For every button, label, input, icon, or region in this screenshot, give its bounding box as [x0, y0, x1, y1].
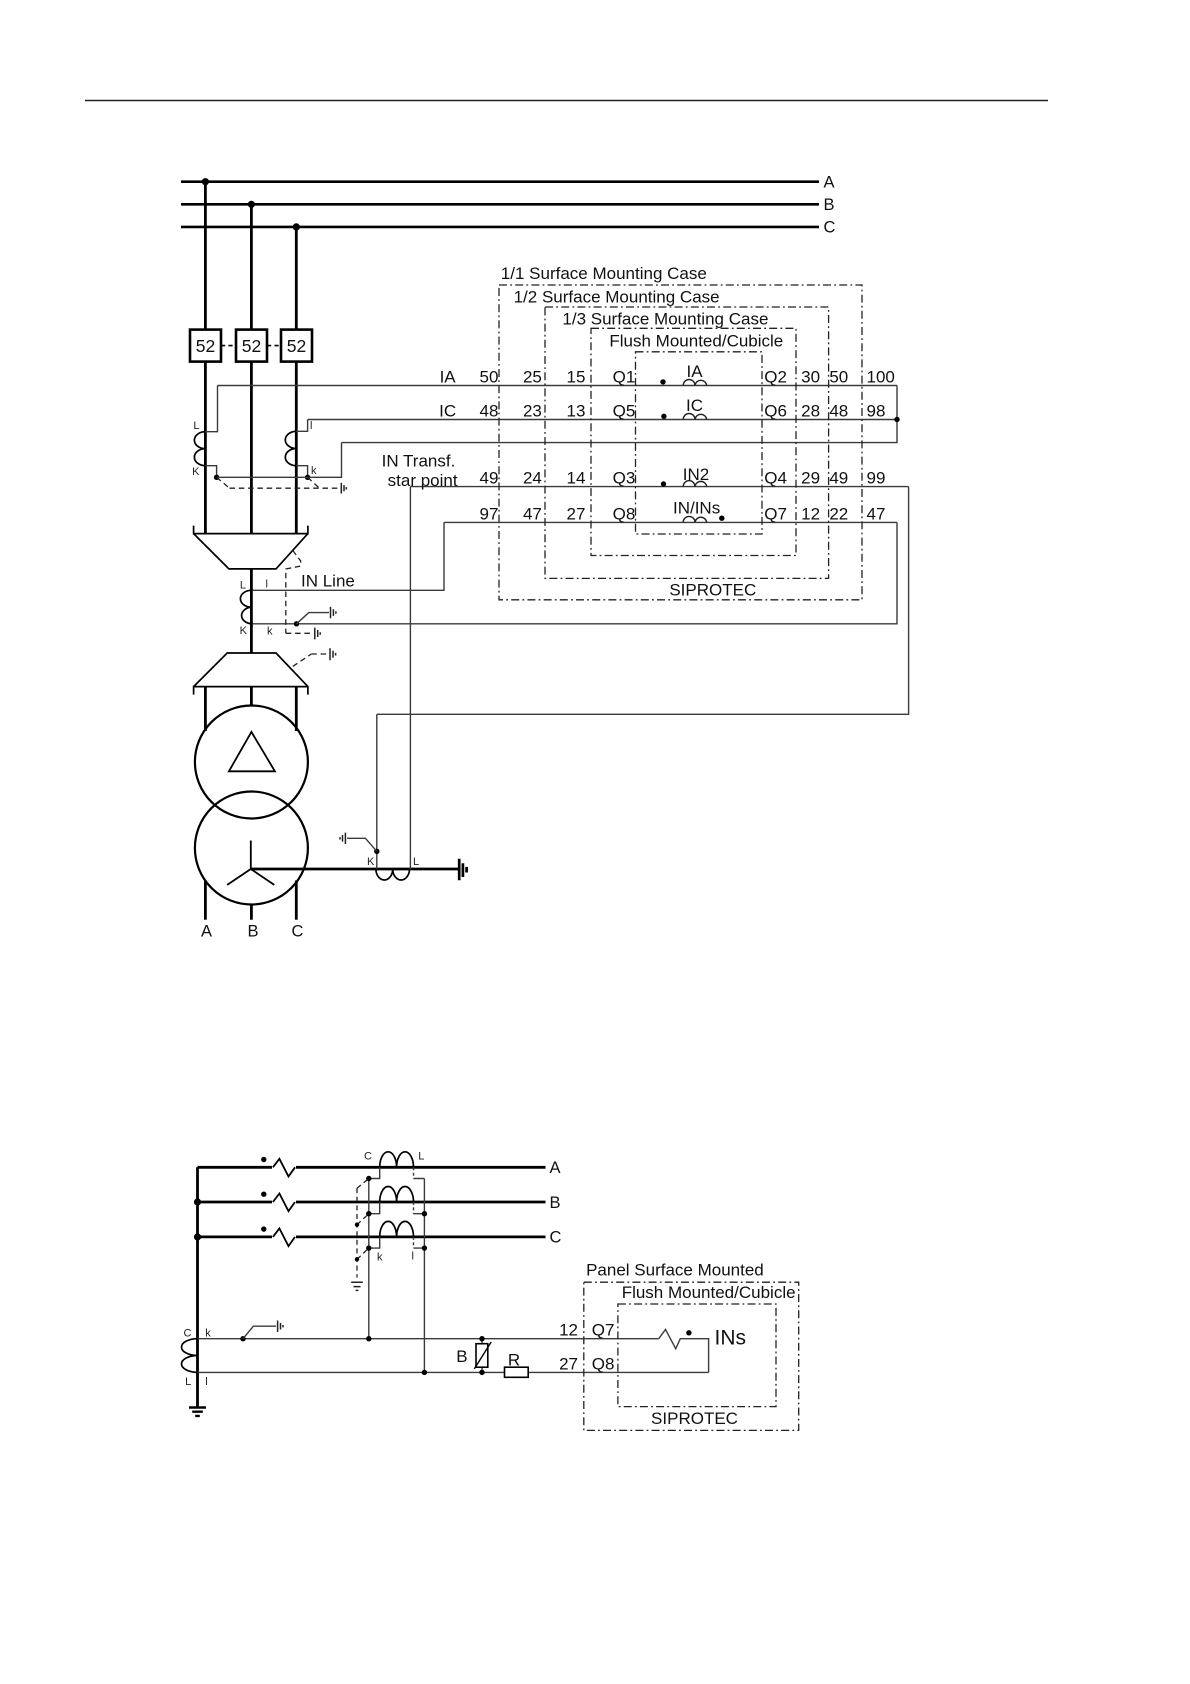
node IC return junction	[894, 417, 899, 422]
svg-text:IC: IC	[686, 396, 703, 415]
wire CT-A K to star point	[205, 466, 216, 478]
svg-text:K: K	[240, 625, 248, 637]
row IC labels	[439, 401, 885, 420]
CT neutral star point (winding)	[376, 869, 410, 880]
ground symbol neutral (earth)	[459, 859, 466, 881]
svg-text:99: 99	[867, 469, 886, 488]
svg-text:Q8: Q8	[592, 1354, 615, 1373]
CT grounding conductor (winding)	[181, 1327, 211, 1388]
svg-text:12: 12	[801, 504, 820, 523]
case 1/1 surface mounting box	[499, 264, 862, 600]
breaker link dashes	[221, 345, 281, 347]
node l lead taps	[422, 1211, 427, 1216]
wire IN/INs return to IN Line k	[251, 522, 897, 623]
feeder phase C	[295, 227, 298, 534]
svg-text:l: l	[205, 1376, 207, 1388]
terminal labels Q7 row	[559, 1321, 614, 1340]
wire CT-C k to star point	[296, 466, 307, 478]
svg-text:47: 47	[523, 504, 542, 523]
svg-text:1/2 Surface Mounting Case: 1/2 Surface Mounting Case	[514, 288, 720, 307]
row IN/INs labels	[480, 504, 886, 523]
svg-text:star point: star point	[388, 471, 458, 490]
stub phase C to transformer	[295, 687, 298, 731]
svg-text:28: 28	[801, 401, 820, 420]
svg-text:L: L	[193, 420, 199, 432]
svg-text:Q4: Q4	[764, 469, 787, 488]
svg-text:k: k	[311, 465, 317, 477]
cable CT phase C (winding)	[369, 1221, 425, 1263]
svg-text:l: l	[310, 420, 312, 432]
delta symbol	[229, 732, 275, 771]
wire CT-A L to IA row	[205, 386, 217, 432]
wire neutral CT K lead	[376, 714, 378, 869]
node neutral CT ground junction	[374, 849, 379, 854]
CT phase C (winding)	[285, 431, 296, 465]
cable CT phase A (winding)	[364, 1151, 424, 1179]
lower diagram phase line A	[198, 1159, 561, 1177]
conductor to IN line CT	[250, 569, 253, 653]
svg-text:C: C	[292, 923, 304, 941]
node k lead to k row	[366, 1336, 371, 1341]
svg-text:l: l	[266, 579, 268, 591]
svg-text:Q7: Q7	[764, 504, 787, 523]
svg-text:25: 25	[523, 367, 542, 386]
svg-text:IA: IA	[686, 362, 703, 381]
transformer lower winding circle	[195, 792, 308, 905]
svg-text:k: k	[377, 1252, 383, 1264]
lower diagram phase line C	[198, 1229, 562, 1247]
wire IC row	[308, 419, 897, 421]
svg-text:23: 23	[523, 401, 542, 420]
breaker 52 phase B	[236, 330, 267, 362]
feeder phase A	[204, 182, 207, 534]
svg-text:14: 14	[567, 469, 586, 488]
page header rule	[85, 100, 1048, 102]
break symbol phase A	[261, 1157, 296, 1178]
wire IN2 return	[377, 487, 909, 715]
varistor B	[456, 1336, 491, 1375]
feeder phase B	[250, 204, 253, 533]
svg-text:IN Line: IN Line	[301, 572, 355, 591]
wire IN/INs row	[444, 521, 897, 523]
IN Transf. star point label	[382, 451, 458, 490]
dashed shield wire lower sealing end	[293, 654, 328, 666]
stub phase B to transformer	[250, 687, 253, 707]
svg-text:R: R	[508, 1350, 520, 1369]
node CT-A K junction	[214, 475, 219, 480]
svg-text:l: l	[412, 1251, 414, 1263]
node bus B tap	[248, 201, 255, 208]
busbar B	[181, 196, 835, 214]
svg-text:24: 24	[523, 469, 542, 488]
svg-text:Q2: Q2	[764, 367, 787, 386]
svg-text:52: 52	[242, 336, 261, 356]
svg-text:27: 27	[559, 1354, 578, 1373]
ground symbol shield upper	[315, 628, 320, 640]
svg-text:B: B	[824, 196, 835, 214]
node shield taps	[355, 1223, 359, 1227]
svg-text:1/1 Surface Mounting Case: 1/1 Surface Mounting Case	[501, 264, 707, 283]
svg-text:27: 27	[567, 504, 586, 523]
wire l row to relay Q8	[198, 1371, 709, 1373]
resistor R	[505, 1350, 529, 1377]
relay winding INs	[659, 1327, 746, 1373]
svg-text:IN/INs: IN/INs	[673, 498, 720, 517]
svg-text:Q5: Q5	[613, 401, 636, 420]
breaker 52 phase C	[281, 330, 312, 362]
phase lead B below transformer	[247, 905, 258, 941]
svg-text:IC: IC	[439, 401, 456, 420]
busbar C	[181, 219, 836, 237]
flush mounted box	[618, 1283, 796, 1407]
svg-text:Q6: Q6	[764, 401, 787, 420]
svg-text:Flush Mounted/Cubicle: Flush Mounted/Cubicle	[609, 331, 783, 350]
svg-text:13: 13	[567, 401, 586, 420]
svg-text:Panel Surface Mounted: Panel Surface Mounted	[586, 1261, 764, 1280]
svg-text:B: B	[247, 923, 258, 941]
break symbol phase C	[261, 1226, 296, 1247]
lower diagram phase line B	[198, 1194, 561, 1212]
svg-text:A: A	[550, 1159, 561, 1177]
wire cable CT k lead	[368, 1179, 370, 1339]
phase lead A below transformer	[201, 881, 212, 941]
wire ground tap IN Line k	[297, 613, 330, 624]
svg-text:L: L	[418, 1151, 424, 1163]
wire neutral CT L lead	[409, 487, 411, 869]
svg-text:48: 48	[829, 401, 848, 420]
svg-text:1/3 Surface Mounting Case: 1/3 Surface Mounting Case	[562, 309, 768, 328]
svg-text:A: A	[824, 174, 835, 192]
svg-text:B: B	[456, 1347, 467, 1366]
ground symbol shield (earth)	[351, 1282, 363, 1290]
svg-text:K: K	[192, 466, 200, 478]
svg-text:SIPROTEC: SIPROTEC	[651, 1409, 738, 1428]
phase lead C below transformer	[292, 881, 304, 941]
cable CT phase B (winding)	[369, 1187, 425, 1214]
break symbol phase B	[261, 1192, 296, 1213]
svg-text:L: L	[185, 1376, 191, 1388]
grounding conductor left	[196, 1167, 199, 1407]
svg-text:49: 49	[480, 469, 499, 488]
wire ground tap k row	[243, 1326, 276, 1339]
svg-text:B: B	[550, 1194, 561, 1212]
ground symbol neutral CT tap	[340, 833, 345, 844]
wire ground tap neutral CT	[347, 838, 377, 851]
svg-text:Q8: Q8	[613, 504, 636, 523]
relay coil IN/INs	[673, 498, 725, 522]
wire IN Line l lead	[251, 522, 444, 590]
wire IN transformer row	[410, 486, 908, 488]
ground symbol left conductor	[189, 1408, 206, 1416]
svg-text:52: 52	[196, 336, 215, 356]
svg-text:52: 52	[287, 336, 306, 356]
relay coil IN2	[661, 465, 709, 486]
node bus C tap	[293, 223, 300, 230]
relay coil IC	[661, 396, 707, 419]
node phase C tap	[194, 1233, 201, 1240]
ground symbol star point (dashed tap)	[341, 483, 346, 494]
panel surface mounted box	[584, 1261, 799, 1431]
svg-text:Q7: Q7	[592, 1321, 615, 1340]
svg-text:Q1: Q1	[613, 367, 636, 386]
ground symbol k row tap	[278, 1321, 283, 1332]
svg-text:INs: INs	[715, 1327, 747, 1350]
svg-text:C: C	[184, 1327, 192, 1339]
node k lead taps	[366, 1176, 371, 1181]
transformer upper winding circle	[195, 706, 308, 819]
svg-text:A: A	[201, 923, 212, 941]
busbar A	[181, 174, 835, 192]
svg-text:50: 50	[829, 367, 848, 386]
wire IA row	[218, 385, 898, 387]
svg-text:K: K	[367, 856, 375, 868]
node bus A tap	[202, 178, 209, 185]
svg-text:30: 30	[801, 367, 820, 386]
svg-text:L: L	[240, 580, 246, 592]
terminal labels Q8 row	[559, 1354, 614, 1373]
svg-text:C: C	[364, 1151, 372, 1163]
wire k row to relay Q7	[198, 1338, 659, 1340]
cable sealing end upper	[194, 526, 308, 569]
wire IA/IC return	[342, 386, 898, 443]
svg-text:IA: IA	[440, 367, 457, 386]
cable sealing end lower	[194, 653, 308, 695]
svg-text:50: 50	[480, 367, 499, 386]
transformer neutral wire	[251, 868, 459, 871]
svg-text:L: L	[413, 856, 419, 868]
case flush mounted box	[609, 331, 783, 534]
CT IN Line (winding)	[240, 590, 251, 624]
dashed shield earthing line	[357, 1179, 369, 1278]
row IA labels	[440, 367, 895, 386]
dashed shield wire upper sealing end	[286, 551, 311, 634]
svg-text:29: 29	[801, 469, 820, 488]
svg-text:SIPROTEC: SIPROTEC	[669, 581, 756, 600]
case 1/3 surface mounting box	[562, 309, 796, 555]
svg-text:C: C	[824, 219, 836, 237]
breaker 52 phase A	[190, 330, 221, 362]
svg-text:IN Transf.: IN Transf.	[382, 451, 456, 470]
node l lead to l row	[422, 1370, 427, 1375]
svg-text:k: k	[205, 1327, 211, 1339]
svg-text:Flush Mounted/Cubicle: Flush Mounted/Cubicle	[622, 1283, 796, 1302]
node ground tap k row	[240, 1336, 245, 1341]
CT phase A (winding)	[194, 432, 205, 466]
svg-text:47: 47	[867, 504, 886, 523]
svg-text:48: 48	[480, 401, 499, 420]
svg-text:98: 98	[867, 401, 886, 420]
svg-text:IN2: IN2	[683, 465, 709, 484]
row IN2 labels	[480, 469, 886, 488]
svg-text:k: k	[267, 626, 273, 638]
wire star point bus	[217, 443, 342, 478]
node IN Line k ground junction	[294, 621, 299, 626]
svg-text:49: 49	[829, 469, 848, 488]
svg-text:22: 22	[829, 504, 848, 523]
stub phase A to transformer	[204, 687, 207, 731]
wye symbol	[227, 841, 274, 885]
wire CT-C l to IC row	[296, 420, 307, 432]
case 1/2 surface mounting box	[514, 288, 829, 579]
dashed test ground star point	[217, 477, 339, 488]
svg-text:97: 97	[480, 504, 499, 523]
relay coil IA	[660, 362, 706, 385]
svg-text:Q3: Q3	[613, 469, 636, 488]
wire cable CT l lead	[423, 1179, 425, 1373]
svg-text:100: 100	[867, 367, 895, 386]
ground symbol IN Line k	[331, 607, 336, 618]
node phase B tap	[194, 1198, 201, 1205]
ground symbol shield lower	[330, 648, 336, 660]
svg-text:12: 12	[559, 1321, 578, 1340]
node CT-C k junction	[305, 475, 310, 480]
svg-text:C: C	[550, 1229, 562, 1247]
svg-text:15: 15	[567, 367, 586, 386]
